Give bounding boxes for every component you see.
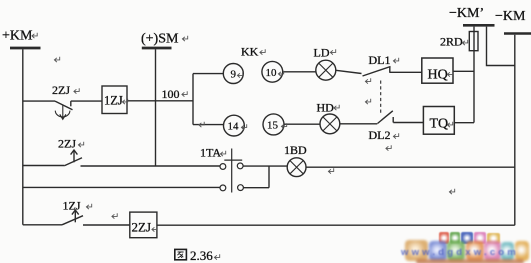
svg-text:KK: KK [241,45,259,59]
svg-text:15: 15 [267,120,279,132]
svg-text:−KM’: −KM’ [449,6,484,21]
svg-text:HQ: HQ [428,68,448,83]
svg-text:1ZJ: 1ZJ [63,199,81,213]
svg-text:HD: HD [317,101,335,115]
svg-text:+KM: +KM [2,29,33,44]
svg-text:2ZJ: 2ZJ [58,137,76,151]
svg-text:2ZJ: 2ZJ [52,83,70,97]
svg-text:2ZJ: 2ZJ [132,220,152,235]
svg-text:9: 9 [231,69,237,81]
svg-text:DL1: DL1 [369,53,391,67]
svg-text:10: 10 [266,67,278,79]
svg-text:2.36: 2.36 [190,248,213,263]
svg-text:DL2: DL2 [369,128,391,142]
svg-text:1TA: 1TA [200,146,221,160]
svg-text:1ZJ: 1ZJ [104,94,123,108]
svg-text:2RD: 2RD [440,35,463,49]
svg-text:TQ: TQ [430,117,449,132]
svg-text:(+)SM: (+)SM [141,32,179,47]
svg-text:−KM: −KM [495,9,526,24]
svg-text:LD: LD [314,46,330,60]
svg-text:14: 14 [228,121,240,133]
svg-text:1BD: 1BD [284,143,307,157]
svg-text:100: 100 [162,87,180,101]
